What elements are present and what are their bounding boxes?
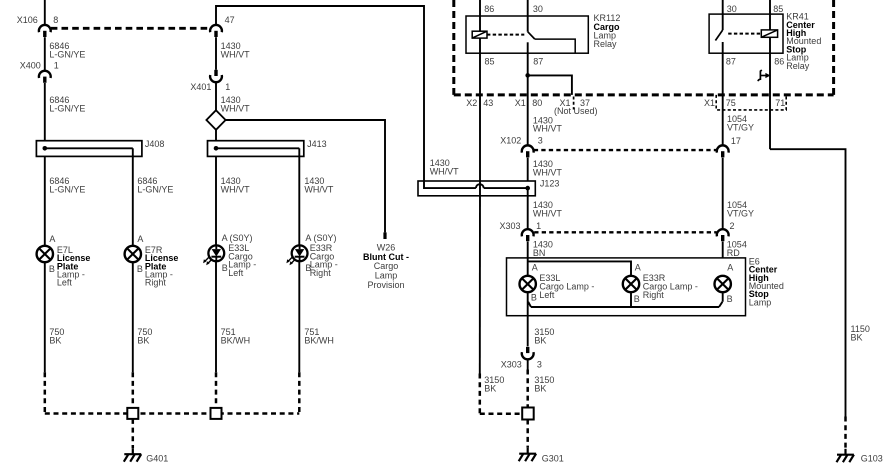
lamp E7R License Plate Lamp - Right [125,246,141,262]
svg-text:B: B [49,264,55,274]
svg-text:86: 86 [774,56,784,66]
dashed ground drop X303-3 to splice [526,370,529,408]
KR112 coil to switch dashed link [487,34,524,36]
relay KR41 Center High Mounted Stop Lamp Relay box [709,14,783,53]
lamp E33R in E6 [623,276,639,292]
splice square S1 on ground bus [127,408,138,419]
connector X106 pin 8 [39,25,51,32]
svg-text:A: A [222,233,228,243]
dashed wire to G103 [844,417,847,449]
svg-text:G301: G301 [542,454,564,464]
wire 1054 VT/GY 17 to pin 2 [722,158,724,229]
wire 1430 WH/VT X401 to splice diamond [215,83,217,111]
svg-text:X401: X401 [190,82,211,92]
dashed fuse block border bottom [454,93,834,96]
svg-text:Provision: Provision [367,280,404,290]
wire 1430 WH/VT J413 to E33L [215,156,217,245]
wire X2-43 through J123 to ground drop [479,181,481,374]
svg-text:Left: Left [57,278,73,288]
connector pin 47 [210,25,222,32]
dashed ground drop E33L [215,372,218,408]
wire 751 BK/WH from E33R [298,261,300,372]
svg-text:BK: BK [137,335,149,345]
wire KR41 pin 87 out [722,42,724,145]
connector X102 pin 3 [522,145,534,152]
svg-text:L-GN/YE: L-GN/YE [137,184,173,194]
svg-text:B: B [222,263,228,273]
connector X303 pin 3 [526,347,529,353]
connector pin 17 [717,145,729,152]
svg-text:85: 85 [773,4,783,14]
dashed link X102 to pin 17 [534,149,716,151]
wire KR41 pin 85 feed [769,0,771,30]
wire inside J413 [216,147,299,149]
dashed ground drop E7R [132,372,135,408]
dashed wire splice to G301 [526,420,529,448]
svg-text:BK: BK [534,335,546,345]
wire KR112 pin 30 feed [527,0,529,32]
svg-text:A: A [137,234,143,244]
svg-text:47: 47 [225,15,235,25]
svg-text:L-GN/YE: L-GN/YE [49,103,85,113]
wire 750 BK from E7L [44,262,46,372]
svg-text:WH/VT: WH/VT [533,124,562,134]
wire KR112 pin 86 feed [479,0,481,31]
ground G103 [844,449,846,455]
svg-text:85: 85 [485,56,495,66]
svg-text:3: 3 [537,360,542,370]
svg-text:Relay: Relay [594,39,618,49]
wire 1054 RD pin 2 to E6 [722,242,724,276]
wire battery feed into X106 pin 8 [44,0,46,24]
svg-text:BK: BK [49,335,61,345]
dashed ground drop E33R [298,372,301,413]
svg-text:B: B [137,264,143,274]
wire 1430 WH/VT 47 to X401 [215,37,217,70]
connector X1 75 71 dashed box [716,95,786,110]
dashed ground drop X2-43 wire [479,374,482,414]
svg-text:X400: X400 [20,61,41,71]
KR41 switch blade [715,30,722,41]
splice square S3 [522,408,534,420]
relay KR112 Cargo Lamp Relay box [466,16,588,53]
svg-text:B: B [727,294,733,304]
svg-text:43: 43 [483,98,493,108]
wire 6846 L-GN/YE J408 to E7L [44,156,46,245]
svg-text:BK/WH: BK/WH [221,335,251,345]
svg-text:L-GN/YE: L-GN/YE [49,50,85,60]
svg-text:G103: G103 [861,454,883,464]
svg-text:1: 1 [225,82,230,92]
svg-text:RD: RD [727,248,740,258]
junction dot J408 [43,146,48,151]
svg-text:A: A [532,263,538,273]
svg-text:A: A [635,263,641,273]
clip symbol on pin 86 wire [758,70,762,81]
splice block J413 [208,141,304,157]
wire 751 BK/WH from E33L [215,261,217,372]
svg-text:B: B [634,294,640,304]
KR112 fixed contact path [535,39,575,53]
svg-text:1: 1 [536,221,541,231]
wire top feed from pin 47 to node F [216,6,424,181]
svg-text:30: 30 [533,4,543,14]
svg-text:87: 87 [726,56,736,66]
dashed ground link to splice square [480,413,522,416]
wire 1430 WH/VT X102 to J123 [527,158,529,188]
svg-text:BN: BN [533,248,546,258]
svg-text:X303: X303 [501,360,522,370]
svg-text:(S0Y): (S0Y) [314,233,337,243]
splice square S2 on ground bus [211,408,222,419]
connector pin 2 [717,229,729,236]
junction dot J123 [525,186,530,191]
dashed ground bus to G401 [45,412,299,415]
svg-text:A: A [49,234,55,244]
svg-text:G401: G401 [146,454,168,464]
dashed link X303-1 to pin 2 [534,231,716,233]
stop lamp bulb in E6 [715,276,731,292]
wire 3150 BK E6 to X303-3 [527,316,529,347]
dashed wire splice to G401 [132,419,135,448]
svg-text:(Not Used): (Not Used) [554,106,598,116]
wire KR112 pin 85 to X2-43 [479,38,481,181]
wire inside J123 with hop over X2-43 wire [424,181,476,188]
wire 1430 WH/VT J413 to E33R [298,156,300,245]
wire 1430 WH/VT X1-80 to X102 [527,75,529,145]
wire KR41 pin 86 jog to right edge ground run 1150 BK [770,149,846,416]
ground G401 [132,448,134,454]
lamp assembly E6 Center High Mounted Stop Lamp box [507,258,746,316]
svg-text:8: 8 [53,15,58,25]
svg-text:Right: Right [145,278,167,288]
dashed fuse block border left [452,0,455,95]
svg-text:X102: X102 [500,136,521,146]
wire 6846 L-GN/YE X400 to splice J408 [44,83,46,148]
wire KR41 pin 86 to X1-71 [769,37,771,149]
lamp E7L License Plate Lamp - Left [37,246,53,262]
wire branch diamond to W26 [226,120,385,232]
svg-text:Left: Left [228,268,244,278]
blunt cut W26 terminal [383,232,386,239]
svg-text:1: 1 [54,61,59,71]
svg-text:X106: X106 [17,15,38,25]
svg-text:A: A [727,263,733,273]
wire inside J408 [45,147,133,149]
wire 750 BK from E7R [132,262,134,372]
svg-text:WH/VT: WH/VT [221,103,250,113]
svg-text:30: 30 [727,4,737,14]
svg-text:WH/VT: WH/VT [533,168,562,178]
svg-text:J408: J408 [145,139,165,149]
svg-text:BK/WH: BK/WH [304,335,334,345]
svg-text:87: 87 [533,56,543,66]
svg-text:71: 71 [775,98,785,108]
svg-text:Left: Left [539,290,555,300]
lamp E33L in E6 [520,276,536,292]
wire 3150 BK below X303-3 [527,360,529,370]
dashed fuse block border right [832,0,835,95]
splice block J408 [36,141,141,157]
svg-text:80: 80 [532,98,542,108]
junction dot pin 87 branch [525,73,530,78]
LED lamp E33R Cargo Lamp - Right [292,245,308,261]
svg-text:Right: Right [310,268,332,278]
wire inner ground rail E6 [528,292,723,316]
ground G301 [527,448,529,454]
KR112 coil [472,31,487,38]
svg-text:B: B [531,293,537,303]
splice diamond [206,110,225,130]
svg-text:2: 2 [730,221,735,231]
wire 1430 BN X303 to E6 [527,242,529,262]
dashed harness link X106-8 to X401-47 [51,27,210,30]
svg-text:VT/GY: VT/GY [727,123,754,133]
splice block J123 [418,181,535,196]
svg-text:X303: X303 [500,221,521,231]
svg-text:A: A [305,233,311,243]
svg-text:X2: X2 [466,98,477,108]
svg-text:WH/VT: WH/VT [430,166,459,176]
KR112 switch blade [528,32,535,39]
svg-text:WH/VT: WH/VT [533,209,562,219]
svg-text:3: 3 [538,136,543,146]
svg-text:WH/VT: WH/VT [221,184,250,194]
svg-text:BK: BK [484,384,496,394]
dashed stub X1-37 [573,97,575,110]
svg-text:BK: BK [534,384,546,394]
svg-text:WH/VT: WH/VT [221,50,250,60]
svg-text:X1: X1 [515,98,526,108]
svg-text:Right: Right [643,290,665,300]
wire KR112 pin 87 out [527,42,529,75]
connector X401 pin 1 [214,70,217,76]
junction dot J413 [214,146,219,151]
KR41 coil to switch dashed link [728,33,761,35]
svg-text:L-GN/YE: L-GN/YE [49,184,85,194]
svg-text:J123: J123 [540,179,560,189]
dashed ground drop E7L [44,372,47,413]
wire diamond to J413 [215,130,217,149]
svg-text:WH/VT: WH/VT [304,184,333,194]
wire KR41 pin 30 feed [722,0,724,30]
svg-text:86: 86 [484,4,494,14]
svg-text:VT/GY: VT/GY [727,209,754,219]
wire 6846 L-GN/YE J408 to E7R [132,156,134,245]
wire branch to X1-37 not used [528,75,572,95]
svg-text:X1: X1 [704,98,715,108]
svg-text:Lamp: Lamp [749,297,772,307]
wire 6846 L-GN/YE X106 to X400 [44,37,46,70]
svg-text:(S0Y): (S0Y) [230,233,253,243]
wire inner feed rail E6 [528,258,631,276]
svg-text:75: 75 [726,98,736,108]
svg-text:BK: BK [851,333,863,343]
connector X303 pin 1 [522,229,534,236]
wire 1430 WH/VT J123 to X303-1 [527,188,529,228]
KR41 coil [761,30,777,37]
svg-text:Relay: Relay [786,61,810,71]
connector X400 pin 1 [39,71,51,78]
svg-text:17: 17 [731,136,741,146]
LED lamp E33L Cargo Lamp - Left [208,245,224,261]
svg-text:J413: J413 [307,139,327,149]
